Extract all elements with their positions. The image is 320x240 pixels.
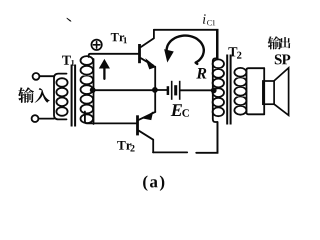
transformer T1 core [72,65,76,127]
wire [85,112,136,124]
battery EC [155,89,167,91]
transformer T2 secondary winding [234,68,246,115]
label T2 [228,47,241,58]
transformer T2 core [227,55,230,125]
label Tr2 [117,141,134,152]
wire [154,67,156,112]
label R [196,68,206,79]
label iC1 [203,14,215,25]
label Tr1 [111,33,127,43]
speaker SP driver box [263,81,274,104]
node center tap of T1 [90,87,96,93]
polarity mark plus [91,40,101,50]
label output (chu) [280,37,290,48]
label SP [275,54,291,64]
wire bottom right segment [196,122,217,153]
current direction arrow up [103,68,105,79]
label (a) [143,176,164,191]
label input (shu) [18,36,290,103]
wire [39,118,54,120]
wire speaker loop right edge [263,68,265,114]
speaker SP horn [274,68,288,115]
transformer T1 primary winding [54,74,67,120]
wire iC1 top [154,30,218,59]
label EC [171,104,189,117]
transistor Q Tr2 [136,115,139,135]
input terminal bottom [32,115,39,122]
node emitter junction [152,87,158,93]
transformer T1 secondary winding [81,56,94,123]
wire bottom left segment [153,151,187,153]
label output (shu) [268,36,282,49]
wire [95,89,153,91]
label input (ru) [35,88,50,103]
node center tap of T2 [211,88,217,94]
circulating current arrow [167,36,204,64]
transistor Q Tr1 [138,44,141,63]
transformer T2 primary winding [213,30,218,153]
input terminal top [33,73,40,80]
label T1 [62,56,74,66]
wire [89,54,139,57]
ink speck [67,18,72,22]
wire [181,89,214,91]
wire [40,75,54,77]
